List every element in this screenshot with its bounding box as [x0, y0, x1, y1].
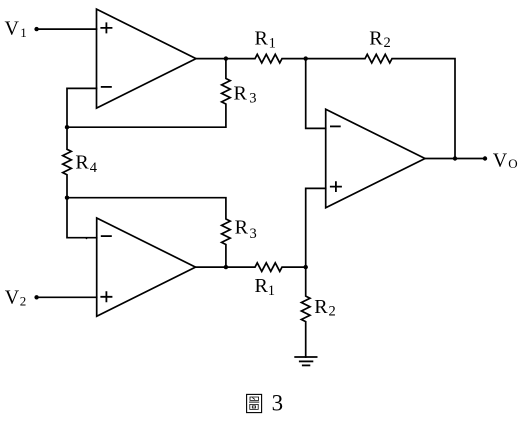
svg-text:1: 1 [20, 25, 27, 40]
svg-text:2: 2 [384, 35, 391, 51]
svg-text:4: 4 [90, 160, 98, 176]
svg-text:O: O [508, 156, 517, 171]
svg-text:R: R [235, 216, 249, 238]
svg-text:3: 3 [250, 226, 257, 242]
svg-text:V: V [5, 18, 20, 40]
svg-text:R: R [255, 275, 269, 297]
svg-text:R: R [314, 296, 328, 318]
svg-text:1: 1 [268, 283, 275, 299]
svg-text:1: 1 [269, 35, 276, 51]
svg-text:2: 2 [20, 293, 27, 308]
svg-text:R: R [369, 28, 383, 50]
svg-text:R: R [234, 82, 248, 104]
svg-text:R: R [75, 151, 89, 173]
svg-text:V: V [5, 287, 20, 309]
svg-text:2: 2 [329, 304, 336, 320]
svg-text:R: R [255, 28, 269, 50]
svg-text:V: V [493, 150, 508, 172]
svg-text:3: 3 [272, 390, 284, 415]
svg-text:3: 3 [249, 90, 256, 106]
